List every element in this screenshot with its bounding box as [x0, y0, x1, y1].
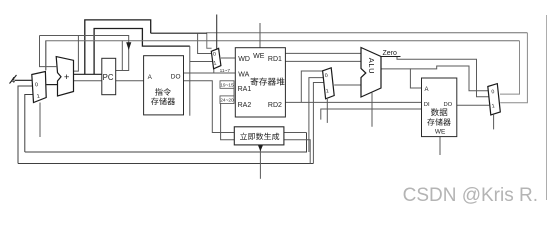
wire mux M2 output down to WA line	[213, 69, 215, 73]
svg-text:RA1: RA1	[238, 86, 252, 93]
wire immediate riser to mux M3 input 1	[313, 83, 324, 164]
wire adder upper input	[40, 36, 57, 67]
wire mux M3 select stub	[326, 99, 328, 123]
wire mux M3 output to ALU lower input	[334, 84, 361, 86]
wire staple leg into adder output junction	[74, 36, 79, 72]
svg-text:WA: WA	[238, 72, 249, 79]
svg-text:11~7: 11~7	[220, 68, 231, 74]
arrowhead below immediate generator	[258, 145, 262, 150]
mux M1 PC source select	[32, 72, 46, 103]
mux M4 writeback select	[488, 84, 501, 115]
svg-text:19~15: 19~15	[220, 82, 234, 88]
wire mux M2 output right to WD	[221, 57, 235, 59]
svg-text:DI: DI	[424, 102, 430, 108]
wire middle riser into mux M3	[309, 78, 324, 152]
adder for PC	[56, 57, 73, 96]
bottom bus B	[18, 163, 313, 165]
wire long y33 writeback line into mux M2	[207, 33, 528, 49]
wire y35.5 route to PC right side	[40, 36, 129, 71]
mux M3 ALU B select	[323, 68, 335, 99]
svg-text:ALU: ALU	[367, 58, 376, 74]
ALU	[361, 48, 381, 98]
wire second line into data memory DI	[321, 109, 422, 120]
svg-text:4: 4	[11, 76, 16, 85]
wire mux M4 output loop inner	[500, 41, 520, 94]
bit slice box 19~15	[220, 81, 234, 89]
svg-text:RA2: RA2	[238, 102, 252, 109]
wire immediate generator right stub upper	[284, 132, 307, 134]
wire ALU output branch to mux M4 input 0	[410, 66, 488, 91]
svg-text:WD: WD	[238, 56, 250, 63]
svg-text:DO: DO	[444, 102, 453, 108]
register file box	[235, 48, 285, 117]
svg-text:DO: DO	[171, 73, 181, 80]
wire mux M2 select stub from top	[216, 15, 218, 49]
svg-text:24~20: 24~20	[220, 97, 234, 103]
svg-text:WE: WE	[253, 53, 265, 60]
wire ALU output to data memory A	[381, 69, 422, 88]
immediate generator box	[234, 127, 284, 145]
wire immediate generator right stub lower	[284, 140, 310, 164]
svg-text:WE: WE	[435, 129, 446, 136]
page divider vertical line at right	[546, 15, 548, 200]
svg-text:RD1: RD1	[268, 56, 282, 63]
svg-text:PC: PC	[103, 73, 114, 82]
wire lower line adder to PC	[74, 80, 102, 82]
bit slice box 24~20	[220, 96, 234, 104]
bottom bus A	[25, 133, 307, 153]
Zero underline	[381, 56, 401, 58]
wire into mux M2 input 1	[190, 61, 213, 63]
bus width slash on 4 wire	[10, 75, 17, 84]
svg-text:CSDN @Kris R.: CSDN @Kris R.	[403, 185, 538, 206]
wire PC+4 loop from adder out over top to mux M2 input 0	[85, 20, 151, 74]
wire mux M1 output to adder lower input	[46, 84, 57, 86]
connector between bit slice boxes	[233, 88, 235, 96]
wire ALU control stub	[371, 93, 373, 127]
wire immediate generator output down through buses	[259, 149, 261, 179]
wire adder output to PC	[74, 73, 102, 75]
wire mux M1 select from top	[45, 41, 47, 71]
wire mux M4 output loop outer	[500, 33, 527, 103]
wire register file WE stub from top	[259, 23, 261, 48]
wire RD2 branch up to mux M3 input 0	[301, 71, 323, 102]
wire vertical x122.3 from y41 to PC right	[121, 41, 123, 71]
wire PC+4 segment joining y33 line	[151, 32, 207, 34]
wire left loop down to bottom bus A	[25, 95, 33, 153]
wire bit slice 24-20 down to immediate generator input 2	[221, 104, 235, 140]
wire PC out to instruction memory A	[116, 80, 144, 82]
wire data memory DO to mux M4 input 1	[457, 104, 490, 106]
svg-text:A: A	[425, 87, 429, 93]
wire mux M1 select stub	[39, 103, 41, 138]
wire mux M4 select stub	[493, 115, 495, 130]
mux M2 writeback to WD	[211, 48, 221, 68]
wire RD2 to data memory DI	[285, 101, 421, 103]
wire long y41 writeback line across to left	[46, 41, 520, 71]
wire Zero to mux M4 region	[381, 57, 489, 97]
svg-text:+: +	[64, 72, 70, 83]
wire constant 4 into mux M1 input 0	[15, 79, 32, 81]
instruction memory box	[144, 56, 184, 115]
wire data memory WE stub	[439, 137, 441, 155]
wire instruction DO bus down to immediate generator input 1	[184, 81, 235, 133]
register PC	[102, 58, 116, 94]
wire vertical x189.8 down to mux M2 input 1	[189, 46, 191, 116]
wire second line into ALU upper input	[285, 60, 361, 62]
wire second top route from adder out	[94, 29, 190, 75]
svg-text:Zero: Zero	[383, 50, 398, 57]
wire mux M1 input 1 from bottom bus B	[18, 86, 32, 164]
data memory box	[422, 78, 457, 137]
wire instruction bits 11~7 to WA	[184, 72, 236, 74]
wire RD1 to ALU upper input	[285, 52, 361, 54]
arrowhead into PC	[127, 43, 131, 50]
wire branch x197.6 down to mux M2 input 0	[198, 33, 212, 53]
svg-text:RD2: RD2	[268, 102, 282, 109]
